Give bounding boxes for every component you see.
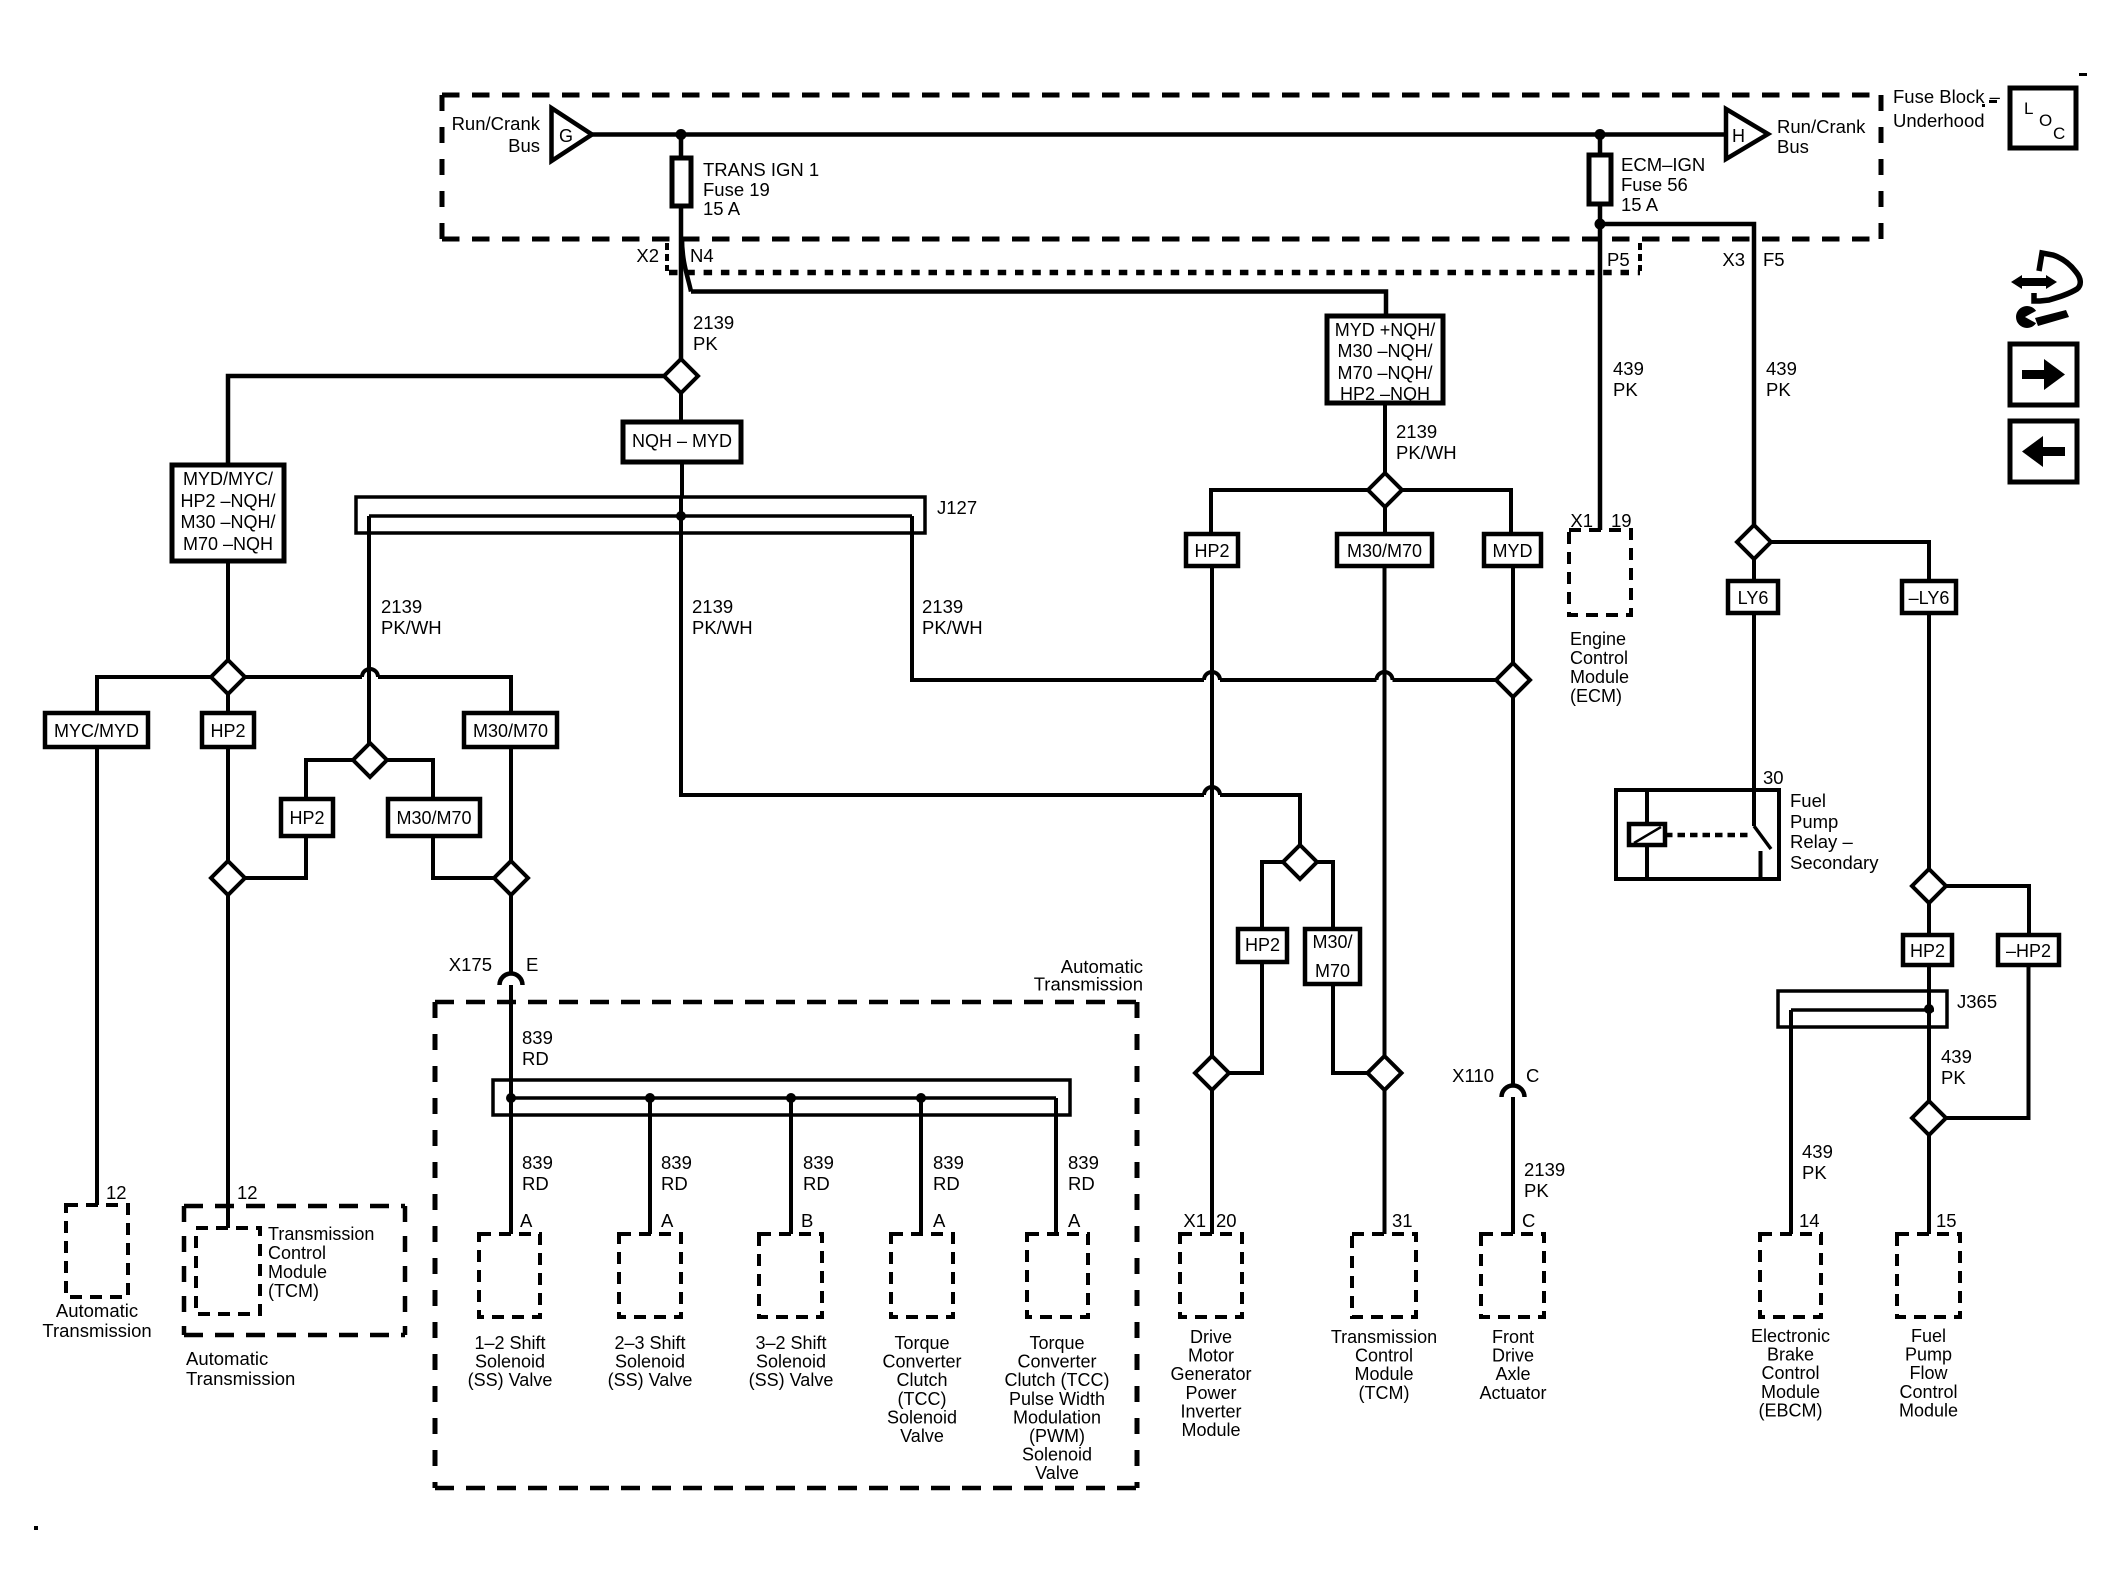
svg-text:Fuel: Fuel bbox=[1790, 790, 1826, 811]
svg-text:HP2 –NQH: HP2 –NQH bbox=[1340, 384, 1430, 404]
svg-text:2139: 2139 bbox=[693, 312, 734, 333]
svg-text:J365: J365 bbox=[1957, 991, 1997, 1012]
svg-text:Brake: Brake bbox=[1767, 1345, 1814, 1365]
svg-text:HP2: HP2 bbox=[1245, 935, 1280, 955]
svg-text:Module: Module bbox=[1354, 1364, 1413, 1384]
svg-text:G: G bbox=[559, 126, 573, 146]
svg-text:LY6: LY6 bbox=[1738, 588, 1769, 608]
svg-text:PK: PK bbox=[1524, 1180, 1549, 1201]
svg-text:Generator: Generator bbox=[1170, 1364, 1251, 1384]
svg-text:J127: J127 bbox=[937, 497, 977, 518]
svg-text:PK/WH: PK/WH bbox=[922, 617, 983, 638]
svg-text:RD: RD bbox=[1068, 1173, 1095, 1194]
svg-text:MYC/MYD: MYC/MYD bbox=[54, 721, 139, 741]
svg-text:P5: P5 bbox=[1607, 249, 1630, 270]
svg-text:(TCM): (TCM) bbox=[1359, 1383, 1410, 1403]
svg-text:M30/M70: M30/M70 bbox=[473, 721, 548, 741]
svg-text:Modulation: Modulation bbox=[1013, 1407, 1101, 1427]
svg-text:839: 839 bbox=[1068, 1152, 1099, 1173]
svg-text:A: A bbox=[661, 1210, 674, 1231]
svg-text:(SS) Valve: (SS) Valve bbox=[468, 1370, 553, 1390]
svg-text:M70 –NQH: M70 –NQH bbox=[183, 534, 273, 554]
svg-text:PK: PK bbox=[1802, 1162, 1827, 1183]
svg-text:HP2 –NQH/: HP2 –NQH/ bbox=[180, 491, 275, 511]
svg-text:Flow: Flow bbox=[1909, 1363, 1948, 1383]
svg-text:439: 439 bbox=[1766, 358, 1797, 379]
svg-text:439: 439 bbox=[1613, 358, 1644, 379]
svg-text:31: 31 bbox=[1392, 1210, 1413, 1231]
svg-text:Control: Control bbox=[1761, 1363, 1819, 1383]
svg-text:RD: RD bbox=[522, 1173, 549, 1194]
svg-text:2139: 2139 bbox=[692, 596, 733, 617]
svg-text:Solenoid: Solenoid bbox=[615, 1352, 685, 1372]
svg-text:Bus: Bus bbox=[1777, 136, 1809, 157]
svg-text:RD: RD bbox=[522, 1048, 549, 1069]
svg-text:E: E bbox=[526, 954, 538, 975]
svg-text:3–2 Shift: 3–2 Shift bbox=[755, 1333, 826, 1353]
svg-text:Solenoid: Solenoid bbox=[475, 1352, 545, 1372]
svg-text:M30/: M30/ bbox=[1312, 932, 1352, 952]
svg-text:PK: PK bbox=[1766, 379, 1791, 400]
svg-text:Torque: Torque bbox=[1029, 1333, 1084, 1353]
svg-text:Fuel: Fuel bbox=[1911, 1326, 1946, 1346]
svg-text:X1: X1 bbox=[1570, 510, 1593, 531]
svg-text:2139: 2139 bbox=[1524, 1159, 1565, 1180]
svg-text:MYD: MYD bbox=[1493, 541, 1533, 561]
svg-text:M30 –NQH/: M30 –NQH/ bbox=[1337, 341, 1432, 361]
svg-text:Pump: Pump bbox=[1790, 811, 1838, 832]
svg-text:Power: Power bbox=[1185, 1383, 1236, 1403]
svg-text:PK: PK bbox=[1613, 379, 1638, 400]
svg-text:Pulse Width: Pulse Width bbox=[1009, 1389, 1105, 1409]
svg-text:Converter: Converter bbox=[882, 1352, 961, 1372]
svg-text:X1: X1 bbox=[1183, 1210, 1206, 1231]
svg-text:(SS) Valve: (SS) Valve bbox=[608, 1370, 693, 1390]
svg-text:A: A bbox=[1068, 1210, 1081, 1231]
svg-text:Solenoid: Solenoid bbox=[887, 1407, 957, 1427]
svg-text:Automatic: Automatic bbox=[186, 1348, 268, 1369]
svg-text:Inverter: Inverter bbox=[1180, 1401, 1241, 1421]
svg-text:TRANS IGN 1: TRANS IGN 1 bbox=[703, 159, 819, 180]
svg-text:Drive: Drive bbox=[1190, 1327, 1232, 1347]
svg-text:(TCC): (TCC) bbox=[898, 1389, 947, 1409]
svg-text:1–2 Shift: 1–2 Shift bbox=[474, 1333, 545, 1353]
svg-text:Bus: Bus bbox=[508, 135, 540, 156]
svg-text:M30/M70: M30/M70 bbox=[1347, 541, 1422, 561]
svg-text:Transmission: Transmission bbox=[1034, 974, 1143, 995]
svg-text:2139: 2139 bbox=[381, 596, 422, 617]
svg-text:RD: RD bbox=[933, 1173, 960, 1194]
svg-text:Fuse 56: Fuse 56 bbox=[1621, 174, 1688, 195]
svg-text:Underhood: Underhood bbox=[1893, 110, 1985, 131]
svg-text:Drive: Drive bbox=[1492, 1346, 1534, 1366]
svg-text:839: 839 bbox=[661, 1152, 692, 1173]
svg-text:Module: Module bbox=[1181, 1420, 1240, 1440]
svg-text:–HP2: –HP2 bbox=[2006, 941, 2051, 961]
svg-text:X175: X175 bbox=[449, 954, 492, 975]
svg-text:Transmission: Transmission bbox=[186, 1368, 295, 1389]
svg-text:12: 12 bbox=[106, 1182, 127, 1203]
svg-text:20: 20 bbox=[1216, 1210, 1237, 1231]
svg-text:Electronic: Electronic bbox=[1751, 1326, 1830, 1346]
svg-text:B: B bbox=[801, 1210, 813, 1231]
svg-text:RD: RD bbox=[803, 1173, 830, 1194]
svg-text:–LY6: –LY6 bbox=[1909, 588, 1950, 608]
svg-text:A: A bbox=[520, 1210, 533, 1231]
svg-text:Actuator: Actuator bbox=[1479, 1383, 1546, 1403]
svg-text:O: O bbox=[2039, 111, 2052, 130]
svg-text:Engine: Engine bbox=[1570, 629, 1626, 649]
svg-text:15: 15 bbox=[1936, 1210, 1957, 1231]
svg-text:PK: PK bbox=[1941, 1067, 1966, 1088]
svg-text:PK/WH: PK/WH bbox=[1396, 442, 1457, 463]
svg-text:Converter: Converter bbox=[1017, 1352, 1096, 1372]
svg-text:2–3 Shift: 2–3 Shift bbox=[614, 1333, 685, 1353]
svg-text:PK/WH: PK/WH bbox=[692, 617, 753, 638]
svg-text:Module: Module bbox=[1761, 1382, 1820, 1402]
svg-text:MYD/MYC/: MYD/MYC/ bbox=[183, 469, 273, 489]
svg-text:Fuse Block –: Fuse Block – bbox=[1893, 86, 2001, 107]
svg-text:A: A bbox=[933, 1210, 946, 1231]
svg-text:F5: F5 bbox=[1763, 249, 1785, 270]
svg-text:Clutch (TCC): Clutch (TCC) bbox=[1004, 1370, 1109, 1390]
svg-text:Fuse 19: Fuse 19 bbox=[703, 179, 770, 200]
svg-text:Control: Control bbox=[1899, 1382, 1957, 1402]
svg-text:Secondary: Secondary bbox=[1790, 852, 1879, 873]
svg-text:M30 –NQH/: M30 –NQH/ bbox=[180, 512, 275, 532]
svg-text:Motor: Motor bbox=[1188, 1346, 1234, 1366]
svg-text:(SS) Valve: (SS) Valve bbox=[749, 1370, 834, 1390]
svg-text:2139: 2139 bbox=[1396, 421, 1437, 442]
svg-text:Module: Module bbox=[1899, 1400, 1958, 1420]
svg-text:C: C bbox=[2053, 124, 2065, 143]
svg-text:Automatic: Automatic bbox=[56, 1300, 138, 1321]
svg-text:Transmission: Transmission bbox=[268, 1224, 374, 1244]
svg-text:(PWM): (PWM) bbox=[1029, 1426, 1085, 1446]
svg-text:Transmission: Transmission bbox=[1331, 1327, 1437, 1347]
svg-text:839: 839 bbox=[522, 1027, 553, 1048]
svg-text:Valve: Valve bbox=[1035, 1463, 1079, 1483]
svg-text:(TCM): (TCM) bbox=[268, 1281, 319, 1301]
svg-text:HP2: HP2 bbox=[210, 721, 245, 741]
svg-text:14: 14 bbox=[1799, 1210, 1820, 1231]
svg-text:PK: PK bbox=[693, 333, 718, 354]
svg-text:439: 439 bbox=[1802, 1141, 1833, 1162]
svg-text:M70: M70 bbox=[1315, 961, 1350, 981]
svg-text:Torque: Torque bbox=[894, 1333, 949, 1353]
svg-text:C: C bbox=[1526, 1065, 1539, 1086]
svg-text:Control: Control bbox=[1355, 1346, 1413, 1366]
svg-text:NQH – MYD: NQH – MYD bbox=[632, 431, 732, 451]
svg-text:Axle: Axle bbox=[1495, 1364, 1530, 1384]
svg-text:MYD +NQH/: MYD +NQH/ bbox=[1335, 320, 1436, 340]
svg-text:Module: Module bbox=[268, 1262, 327, 1282]
svg-text:ECM–IGN: ECM–IGN bbox=[1621, 154, 1705, 175]
svg-text:839: 839 bbox=[933, 1152, 964, 1173]
svg-text:(EBCM): (EBCM) bbox=[1759, 1400, 1823, 1420]
svg-text:H: H bbox=[1732, 126, 1745, 146]
svg-text:839: 839 bbox=[522, 1152, 553, 1173]
svg-text:X3: X3 bbox=[1722, 249, 1745, 270]
svg-text:439: 439 bbox=[1941, 1046, 1972, 1067]
svg-text:Module: Module bbox=[1570, 667, 1629, 687]
svg-text:Solenoid: Solenoid bbox=[756, 1352, 826, 1372]
svg-text:Clutch: Clutch bbox=[896, 1370, 947, 1390]
svg-text:PK/WH: PK/WH bbox=[381, 617, 442, 638]
svg-text:Transmission: Transmission bbox=[42, 1320, 151, 1341]
svg-text:15 A: 15 A bbox=[1621, 194, 1659, 215]
svg-text:19: 19 bbox=[1611, 510, 1632, 531]
svg-text:Pump: Pump bbox=[1905, 1345, 1952, 1365]
svg-text:HP2: HP2 bbox=[1194, 541, 1229, 561]
svg-text:30: 30 bbox=[1763, 767, 1784, 788]
svg-text:HP2: HP2 bbox=[1910, 941, 1945, 961]
svg-text:M70 –NQH/: M70 –NQH/ bbox=[1337, 363, 1432, 383]
svg-text:X110: X110 bbox=[1452, 1065, 1494, 1086]
svg-text:C: C bbox=[1522, 1210, 1535, 1231]
svg-text:Control: Control bbox=[268, 1243, 326, 1263]
svg-text:2139: 2139 bbox=[922, 596, 963, 617]
svg-text:Solenoid: Solenoid bbox=[1022, 1445, 1092, 1465]
svg-text:L: L bbox=[2024, 99, 2033, 118]
svg-text:M30/M70: M30/M70 bbox=[396, 808, 471, 828]
svg-text:839: 839 bbox=[803, 1152, 834, 1173]
svg-text:Front: Front bbox=[1492, 1327, 1534, 1347]
svg-text:12: 12 bbox=[237, 1182, 258, 1203]
svg-text:(ECM): (ECM) bbox=[1570, 686, 1622, 706]
svg-text:Run/Crank: Run/Crank bbox=[1777, 116, 1866, 137]
svg-text:15 A: 15 A bbox=[703, 198, 741, 219]
svg-text:Valve: Valve bbox=[900, 1426, 944, 1446]
svg-text:Control: Control bbox=[1570, 648, 1628, 668]
svg-text:Relay –: Relay – bbox=[1790, 831, 1853, 852]
svg-text:N4: N4 bbox=[690, 245, 714, 266]
svg-text:Run/Crank: Run/Crank bbox=[452, 113, 541, 134]
svg-text:X2: X2 bbox=[636, 245, 659, 266]
svg-text:RD: RD bbox=[661, 1173, 688, 1194]
svg-text:HP2: HP2 bbox=[289, 808, 324, 828]
